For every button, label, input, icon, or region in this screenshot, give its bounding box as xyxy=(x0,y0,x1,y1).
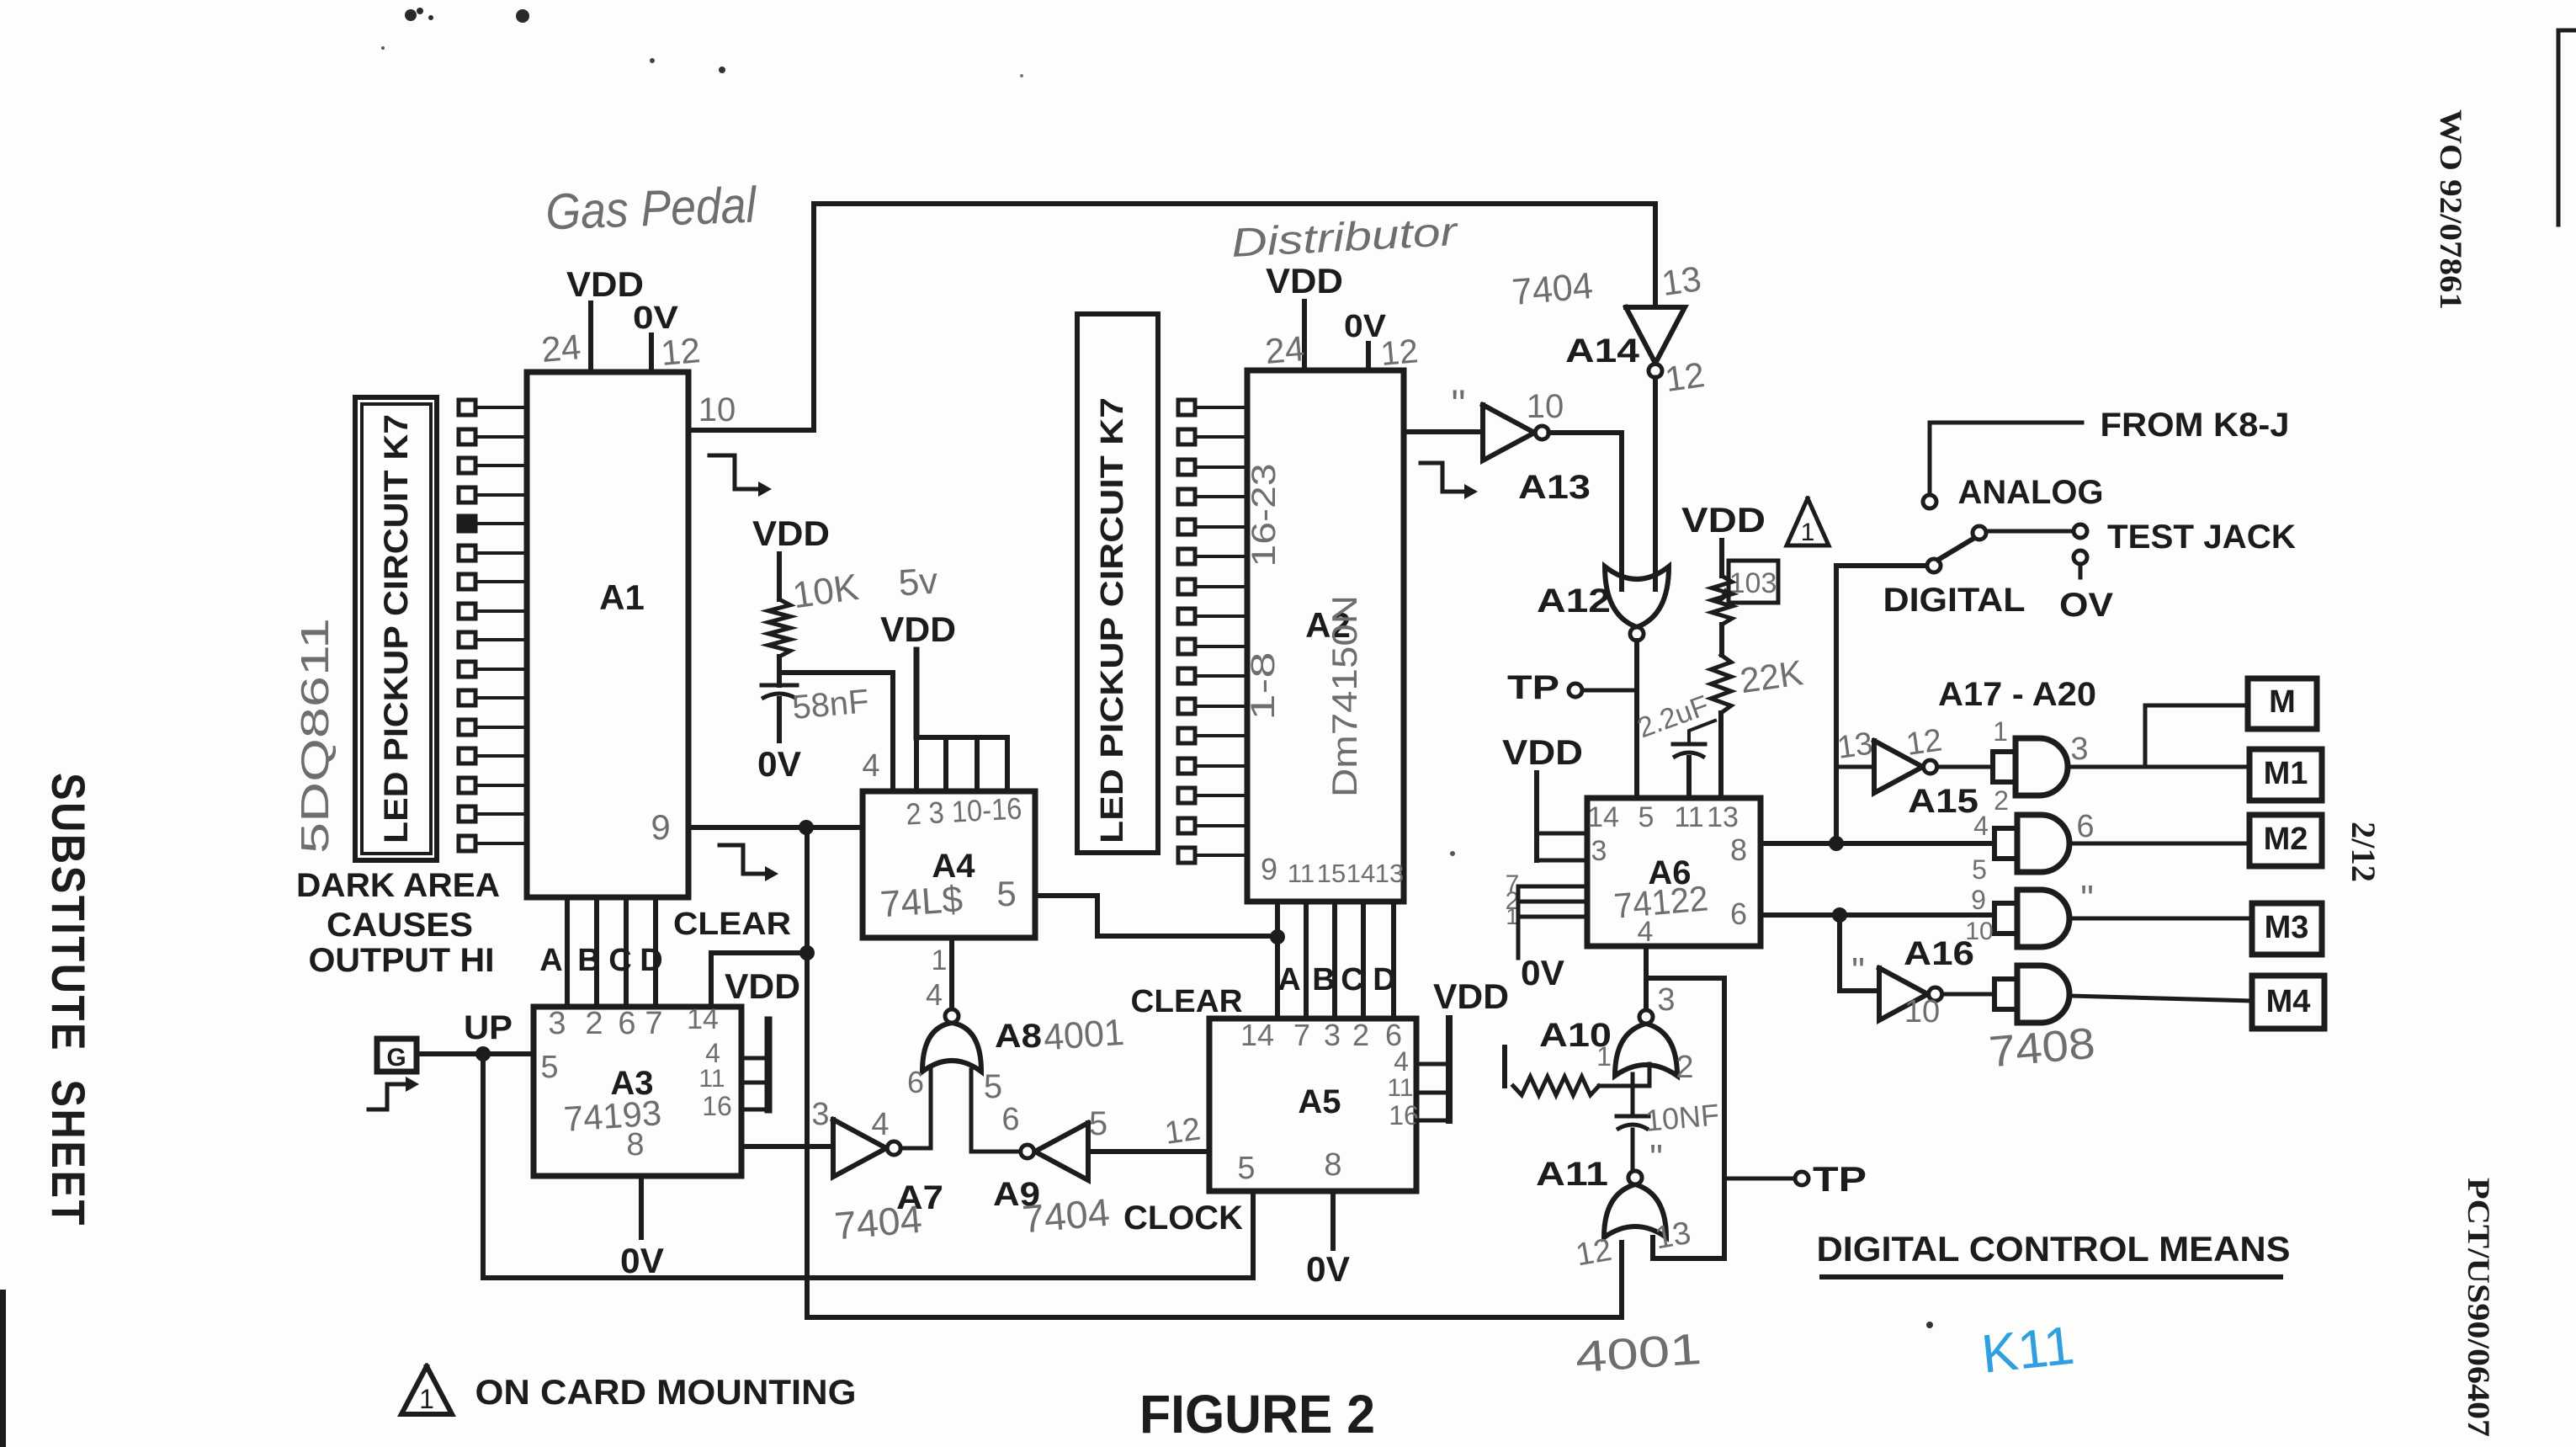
falling edge symbol near A1 pin9 xyxy=(720,845,778,881)
wire M branch xyxy=(2145,705,2248,767)
svg-text:VDD: VDD xyxy=(1433,976,1509,1016)
A2 pins 1-8 xyxy=(1245,652,1282,721)
wire resistor to cap xyxy=(777,657,782,685)
scan specks xyxy=(381,8,1933,1328)
AND gate A17 xyxy=(1993,738,2068,795)
VDD (RC) xyxy=(752,513,830,599)
A8 pin5 number xyxy=(984,1068,1002,1105)
wire trimmer middle xyxy=(1719,625,1724,655)
wire clear junction down to A5 xyxy=(1275,937,1280,1019)
NOR gate A10 xyxy=(1615,1010,1677,1076)
AND gate A20 xyxy=(1994,966,2069,1023)
A5 pin12 number xyxy=(1162,1111,1203,1151)
svg-text:2: 2 xyxy=(585,1006,603,1041)
svg-text:A8: A8 xyxy=(995,1018,1042,1055)
svg-text:13: 13 xyxy=(1707,801,1739,833)
A6 pin 6 number xyxy=(1730,896,1747,931)
svg-text:2/12: 2/12 xyxy=(2345,822,2382,882)
A3 0V pin 8 stem xyxy=(620,1176,664,1280)
svg-text:5: 5 xyxy=(984,1068,1002,1105)
svg-text:A5: A5 xyxy=(1298,1083,1341,1120)
svg-text:4: 4 xyxy=(1394,1046,1409,1077)
svg-text:M1: M1 xyxy=(2264,756,2308,791)
A6 pin 4 number xyxy=(1638,916,1654,948)
trimmer arrow xyxy=(1718,588,1730,603)
svg-text:4: 4 xyxy=(862,748,879,784)
svg-text:": " xyxy=(1851,950,1865,992)
svg-text:3: 3 xyxy=(1591,835,1607,867)
wires A2 to A5 (A B C D) xyxy=(1306,902,1394,1019)
svg-text:M3: M3 xyxy=(2265,910,2309,945)
svg-text:0V: 0V xyxy=(1521,953,1564,992)
LED PICKUP CIRCUIT K7 box 1 xyxy=(355,397,437,860)
svg-text:": " xyxy=(1451,383,1465,428)
A1 pin number 12 xyxy=(659,330,702,373)
svg-text:WO 92/07861: WO 92/07861 xyxy=(2433,109,2467,310)
svg-text:16-23: 16-23 xyxy=(1246,464,1283,567)
svg-text:4: 4 xyxy=(871,1107,889,1142)
svg-text:7404: 7404 xyxy=(1511,265,1595,313)
svg-text:13: 13 xyxy=(1375,859,1404,888)
svg-text:DIGITAL CONTROL MEANS: DIGITAL CONTROL MEANS xyxy=(1817,1229,2291,1269)
node A4/A5 clear junction xyxy=(1270,929,1285,944)
svg-text:0V: 0V xyxy=(620,1241,664,1280)
svg-text:A16: A16 xyxy=(1904,935,1974,972)
VDD (A6 timing) xyxy=(1681,500,1766,540)
box M1 xyxy=(2249,749,2322,801)
note Distributor xyxy=(1230,210,1460,266)
node pin8/switch junction xyxy=(1829,836,1844,851)
A15 pin13 number xyxy=(1835,726,1875,765)
svg-text:TP: TP xyxy=(1507,669,1559,706)
wire A3 pin3 to A7 xyxy=(741,1144,833,1149)
wire cap node to A4 pin4 xyxy=(779,673,893,791)
A11 pin 13 number xyxy=(1652,1216,1693,1257)
svg-text:4: 4 xyxy=(926,977,943,1012)
footer PCT/US90/06407 xyxy=(2461,1178,2495,1437)
svg-text:C: C xyxy=(608,943,631,978)
A13 pin 11 number xyxy=(1451,383,1465,428)
A8 pin4 number xyxy=(926,977,943,1012)
wire A6 pin4 to A10 xyxy=(1644,946,1649,1010)
A4 VDD xyxy=(880,609,956,737)
svg-text:5: 5 xyxy=(540,1050,558,1085)
svg-text:2: 2 xyxy=(1676,1050,1693,1085)
svg-text:10: 10 xyxy=(698,391,736,428)
falling edge symbol near A1 pin10 xyxy=(709,455,772,497)
label A13 xyxy=(1518,469,1591,506)
svg-text:SUBSTITUTE SHEET: SUBSTITUTE SHEET xyxy=(42,773,95,1227)
svg-text:A17 - A20: A17 - A20 xyxy=(1938,676,2096,713)
node G junction xyxy=(475,1046,491,1061)
label A7 xyxy=(896,1179,943,1216)
svg-text:14: 14 xyxy=(687,1003,719,1035)
wire A13 to A12 xyxy=(1548,433,1622,589)
resistor 22K xyxy=(1711,655,1731,713)
svg-text:4001: 4001 xyxy=(1042,1012,1125,1059)
inverter A7 xyxy=(833,1120,900,1177)
box M xyxy=(2248,678,2317,729)
svg-text:4: 4 xyxy=(1973,811,1989,841)
wire to test jack xyxy=(1986,529,2074,534)
svg-text:VDD: VDD xyxy=(566,264,644,304)
svg-text:LED PICKUP CIRCUIT K7: LED PICKUP CIRCUIT K7 xyxy=(378,414,415,843)
A14 pin 13 number xyxy=(1660,258,1704,303)
switch upper terminal xyxy=(1973,526,1986,540)
A2 part Dm74150N xyxy=(1325,595,1364,797)
caption FIGURE 2 xyxy=(1139,1384,1375,1444)
capacitor 58nF xyxy=(762,685,797,741)
node pin6/A16 junction xyxy=(1832,907,1847,923)
svg-text:0V: 0V xyxy=(633,301,679,336)
wire switch common xyxy=(1836,566,1927,843)
terminal G box xyxy=(377,1039,417,1072)
svg-text:8: 8 xyxy=(1324,1147,1341,1183)
A3 right pin numbers 4 11 16 xyxy=(698,1038,731,1121)
svg-text:VDD: VDD xyxy=(1266,261,1343,301)
handwritten 5DQ8611 xyxy=(293,618,337,854)
svg-text:D: D xyxy=(1373,962,1395,997)
svg-text:5: 5 xyxy=(1089,1105,1107,1142)
wire A6 pin8 out xyxy=(1761,841,1993,846)
svg-text:3: 3 xyxy=(548,1006,566,1041)
svg-text:Dm74150N: Dm74150N xyxy=(1325,595,1364,797)
svg-text:FIGURE 2: FIGURE 2 xyxy=(1139,1384,1375,1444)
A2 bottom pin numbers 11 15 14 13 xyxy=(1288,859,1404,888)
svg-text:A1: A1 xyxy=(599,577,645,617)
scan edge bottom-left xyxy=(0,1290,6,1447)
wire to A15 xyxy=(1836,765,1874,769)
A2 pin 9 number xyxy=(1261,852,1277,886)
label 10 (A1 pin) xyxy=(698,391,736,428)
A5 VDD bracket xyxy=(1416,976,1509,1120)
test point TP (A12) xyxy=(1507,669,1637,706)
svg-text:5DQ8611: 5DQ8611 xyxy=(293,618,337,854)
label A15 xyxy=(1908,783,1978,820)
A16 pin11 number xyxy=(1851,950,1865,992)
LED PICKUP CIRCUIT K7 box 2 xyxy=(1077,314,1158,853)
svg-text:PCT/US90/06407: PCT/US90/06407 xyxy=(2461,1178,2495,1437)
svg-text:1-8: 1-8 xyxy=(1245,652,1282,721)
label A11 xyxy=(1536,1156,1608,1193)
label A12 xyxy=(1537,583,1611,620)
svg-text:24: 24 xyxy=(1263,328,1306,371)
A11 right input loop xyxy=(1646,978,1724,1258)
wire AND1 to M1 xyxy=(2068,765,2249,769)
svg-text:6: 6 xyxy=(1730,896,1747,931)
svg-text:1: 1 xyxy=(1801,519,1815,546)
svg-text:VDD: VDD xyxy=(725,966,800,1006)
wire resistor to A10 xyxy=(1599,1064,1649,1086)
wire A4 pin5 to A5 pin14 xyxy=(1035,896,1278,936)
wire bottom run to A11 pin12 xyxy=(807,1242,1622,1317)
svg-text:12: 12 xyxy=(1379,332,1420,373)
IC A4 box xyxy=(863,791,1035,938)
resistor upper (trimmer) xyxy=(1712,576,1732,625)
svg-text:10NF: 10NF xyxy=(1644,1097,1720,1138)
wire A9 to A8 xyxy=(971,1070,1020,1152)
box M2 xyxy=(2249,815,2322,866)
note Gas Pedal xyxy=(544,177,758,241)
svg-text:A11: A11 xyxy=(1536,1156,1608,1193)
svg-text:5: 5 xyxy=(996,874,1016,913)
A2 VDD pin 24 xyxy=(1266,261,1343,370)
svg-text:A14: A14 xyxy=(1565,332,1640,370)
svg-text:1: 1 xyxy=(419,1384,434,1414)
A9 pin5 number xyxy=(1089,1105,1107,1142)
label A1 xyxy=(599,577,645,617)
A2 pins 16-23 xyxy=(1246,464,1283,567)
wire A16 to AND4 xyxy=(1942,992,1994,997)
switch arm xyxy=(1938,537,1976,560)
svg-text:74122: 74122 xyxy=(1612,878,1710,926)
svg-text:9: 9 xyxy=(651,807,670,847)
A1 0V pin 12 xyxy=(633,301,679,372)
capacitor 2.2uF xyxy=(1673,721,1715,798)
svg-text:7404: 7404 xyxy=(1021,1190,1112,1242)
test point TP (right) xyxy=(1795,1159,1867,1199)
A4 pin 4 number xyxy=(862,748,879,784)
wire A7 to A8 xyxy=(900,1070,931,1148)
svg-text:0V: 0V xyxy=(757,744,801,784)
inverter A14 xyxy=(1626,307,1685,378)
svg-text:B: B xyxy=(1312,962,1335,997)
rising edge symbol (G) xyxy=(369,1077,419,1109)
wire A9 input from A5 pin12 xyxy=(1088,1149,1209,1154)
handwritten 7404 (A14) xyxy=(1511,265,1595,313)
svg-text:11: 11 xyxy=(1387,1074,1413,1102)
svg-text:OV: OV xyxy=(2059,587,2113,624)
box M4 xyxy=(2252,976,2324,1029)
wire clock rail xyxy=(483,1275,1253,1280)
svg-text:7: 7 xyxy=(1293,1018,1310,1052)
A4 VDD bracket to pins 2 3 10-16 xyxy=(916,737,1007,791)
svg-text:7404: 7404 xyxy=(833,1197,924,1248)
svg-text:6: 6 xyxy=(2076,809,2094,844)
label 9 (A1 pin) xyxy=(651,807,670,847)
svg-text:": " xyxy=(1649,1137,1663,1178)
svg-text:A15: A15 xyxy=(1908,783,1978,820)
A3 top pin numbers 3 2 6 7 xyxy=(548,1006,662,1041)
wire CLEAR vertical xyxy=(805,827,810,1317)
A5 top pin numbers 14 7 3 2 6 xyxy=(1240,1018,1402,1052)
handwritten K11 (blue) xyxy=(1978,1315,2077,1385)
label A4 xyxy=(932,848,975,885)
wire 22K to A6 pin13 xyxy=(1718,713,1724,798)
svg-text:M2: M2 xyxy=(2264,822,2308,857)
svg-text:4: 4 xyxy=(705,1038,720,1068)
caption DIGITAL CONTROL MEANS xyxy=(1817,1229,2291,1277)
wire A2 pin11 to A13 xyxy=(1404,429,1483,434)
AND gate A18 xyxy=(1994,815,2069,872)
label ANALOG xyxy=(1958,474,2104,511)
A6 top pin numbers xyxy=(1587,801,1739,833)
wire AND2 to M2 xyxy=(2069,842,2249,846)
svg-text:Gas Pedal: Gas Pedal xyxy=(544,177,758,241)
svg-text:TEST JACK: TEST JACK xyxy=(2107,519,2296,556)
label 5v xyxy=(897,560,939,604)
svg-text:ANALOG: ANALOG xyxy=(1958,474,2104,511)
page number 2/12 xyxy=(2345,822,2382,882)
svg-text:": " xyxy=(2080,878,2094,919)
A1 VDD pin 24 xyxy=(566,264,644,372)
A4 pin1 number xyxy=(932,944,948,976)
svg-text:UP: UP xyxy=(464,1009,513,1046)
wire G to A3 xyxy=(417,1051,534,1056)
caption ON CARD MOUNTING xyxy=(475,1372,857,1412)
svg-text:14: 14 xyxy=(1240,1018,1274,1052)
node pin9 junction xyxy=(799,820,814,835)
labels A B C D (left) xyxy=(539,943,662,978)
IC A6 box xyxy=(1587,798,1761,946)
A3 VDD bracket xyxy=(725,966,800,1109)
corner mark top right xyxy=(2558,30,2576,225)
A3 pin number 5 xyxy=(540,1050,558,1085)
wire CLEAR to A3 pin14 xyxy=(711,953,807,1007)
A8 pin6 number xyxy=(907,1065,924,1099)
svg-text:15: 15 xyxy=(1317,859,1346,888)
svg-text:13: 13 xyxy=(1835,726,1875,765)
svg-text:5: 5 xyxy=(1237,1151,1255,1186)
svg-text:C: C xyxy=(1341,962,1363,997)
wire clear junction up to A2 pin9 xyxy=(1275,902,1280,937)
svg-text:12: 12 xyxy=(1162,1111,1203,1151)
test jack terminal xyxy=(2074,524,2087,538)
label A5 xyxy=(1298,1083,1341,1120)
svg-text:74193: 74193 xyxy=(562,1093,662,1139)
box M3 xyxy=(2252,903,2322,955)
AND gate A19 xyxy=(1994,890,2069,947)
header WO 92/07861 xyxy=(2433,109,2467,310)
svg-text:ON CARD MOUNTING: ON CARD MOUNTING xyxy=(475,1372,857,1412)
capacitor 10NF xyxy=(1617,1116,1649,1130)
svg-text:B: B xyxy=(577,943,600,978)
svg-text:13: 13 xyxy=(1660,258,1704,303)
A5 pin5 stem (clock) xyxy=(1251,1191,1256,1278)
svg-text:VDD: VDD xyxy=(1681,500,1766,540)
svg-text:14: 14 xyxy=(1587,801,1619,833)
svg-text:6: 6 xyxy=(907,1065,924,1099)
label 2.2uF xyxy=(1633,689,1713,744)
A2 0V pin 12 xyxy=(1344,309,1387,370)
svg-text:DARK AREA: DARK AREA xyxy=(296,867,500,904)
A3 part number 74193 xyxy=(562,1093,662,1139)
A7 pin3 number xyxy=(811,1097,829,1132)
label A8 xyxy=(995,1018,1042,1055)
svg-text:10: 10 xyxy=(1904,994,1940,1029)
svg-text:1: 1 xyxy=(1596,1041,1612,1072)
A11 pin 12 number xyxy=(1573,1232,1614,1274)
A6 left pins 7 2 1 xyxy=(1506,870,1520,929)
label A14 xyxy=(1565,332,1640,370)
svg-text:K11: K11 xyxy=(1978,1315,2077,1385)
A4 pin1 stem to A8 xyxy=(949,938,954,1009)
inverter A16 xyxy=(1879,968,1942,1020)
inverter A15 xyxy=(1874,741,1937,793)
A2 pin number 12 xyxy=(1379,332,1420,373)
falling edge symbol near A13 xyxy=(1421,463,1478,499)
svg-text:6: 6 xyxy=(1001,1102,1019,1137)
svg-text:6: 6 xyxy=(618,1006,635,1041)
LED array 2 (16 photodiode squares with leads) xyxy=(1178,400,1247,863)
svg-text:3: 3 xyxy=(1324,1018,1341,1052)
handwritten 4001 (A10/A11) xyxy=(1574,1325,1703,1382)
handwritten 7408 xyxy=(1987,1019,2097,1077)
svg-text:VDD: VDD xyxy=(752,513,830,553)
svg-text:7: 7 xyxy=(645,1006,662,1041)
wire A6 pin6 out xyxy=(1761,912,1994,918)
svg-text:12: 12 xyxy=(659,330,702,373)
svg-text:3: 3 xyxy=(1657,982,1675,1018)
A6 pin 8 number xyxy=(1730,833,1747,867)
svg-text:7408: 7408 xyxy=(1987,1019,2097,1077)
A10 pin 1 number xyxy=(1596,1041,1612,1072)
wire TP right xyxy=(1724,1177,1795,1181)
IC A2 box xyxy=(1247,370,1404,902)
A4 top pin numbers 2 3 10-16 xyxy=(905,790,1022,831)
label A10 xyxy=(1539,1017,1612,1054)
svg-text:D: D xyxy=(640,943,662,978)
A6 pin 3 number xyxy=(1591,835,1607,867)
A1 pin 9 wire xyxy=(688,825,863,830)
wire A12 output to A6 pin5 xyxy=(1634,641,1639,798)
svg-text:14: 14 xyxy=(1346,859,1375,888)
A3 pin number 14 xyxy=(687,1003,719,1035)
svg-text:5: 5 xyxy=(1972,854,1987,885)
svg-text:58nF: 58nF xyxy=(791,683,871,726)
wire AND3 to M3 xyxy=(2069,917,2252,921)
handwritten 7404 (A9) xyxy=(1021,1190,1112,1242)
labels A B C D (right) xyxy=(1277,962,1395,997)
A5 pin8 0V xyxy=(1306,1191,1350,1289)
svg-text:11: 11 xyxy=(1288,859,1315,888)
svg-text:74L$: 74L$ xyxy=(879,879,964,926)
A15 pin12 number xyxy=(1904,722,1944,762)
AND2 pin numbers xyxy=(1972,809,2094,885)
A2 pin number 24 xyxy=(1263,328,1306,371)
A16 pin10 number xyxy=(1904,994,1940,1029)
svg-text:CLEAR: CLEAR xyxy=(1131,984,1243,1019)
svg-text:CLOCK: CLOCK xyxy=(1123,1200,1243,1237)
LED array 1 (16 photodiode squares with leads) xyxy=(459,400,527,851)
handwritten 7404 (A7) xyxy=(833,1197,924,1248)
svg-text:12: 12 xyxy=(1663,354,1708,399)
svg-text:1: 1 xyxy=(932,944,948,976)
label 10NF xyxy=(1644,1097,1720,1138)
handwritten 4001 (A8) xyxy=(1042,1012,1125,1059)
0V (RC) xyxy=(757,744,801,784)
A9 pin6 number xyxy=(1001,1102,1019,1137)
A13 pin 10 number xyxy=(1527,388,1564,425)
wires A1 to A3 (A B C D) xyxy=(567,897,656,1007)
svg-text:A13: A13 xyxy=(1518,469,1591,506)
analog terminal xyxy=(1923,495,1936,508)
NOR gate A11 (input bubble) xyxy=(1604,1171,1666,1237)
svg-text:A12: A12 xyxy=(1537,583,1611,620)
svg-text:11: 11 xyxy=(1674,801,1703,833)
wire gas-pedal net xyxy=(688,204,1655,430)
switch common terminal xyxy=(1927,559,1941,572)
svg-text:OUTPUT HI: OUTPUT HI xyxy=(309,942,495,979)
wire VDD to trimmer xyxy=(1719,540,1724,576)
svg-text:DIGITAL: DIGITAL xyxy=(1883,582,2026,619)
A6 left pin wires xyxy=(1518,886,1587,958)
NOR gate A8 xyxy=(922,1009,981,1072)
svg-text:1: 1 xyxy=(1993,716,2008,747)
wire stub left of resistor xyxy=(1502,1047,1507,1086)
svg-text:A: A xyxy=(539,943,562,978)
svg-text:2: 2 xyxy=(1994,785,2009,816)
